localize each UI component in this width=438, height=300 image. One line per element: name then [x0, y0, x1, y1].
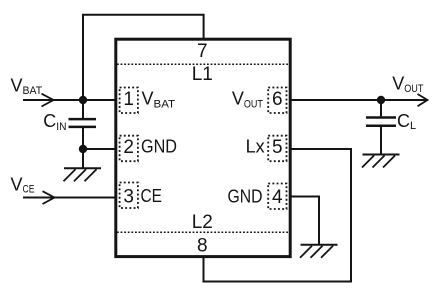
svg-text:L1: L1 [192, 64, 213, 85]
VBAT input arrow [42, 94, 54, 107]
VCE input arrow [43, 191, 55, 204]
svg-text:2: 2 [123, 137, 134, 158]
wire GND node down to ground [82, 149, 84, 168]
wire VBAT input to pin 1 [23, 99, 115, 101]
svg-text:GND: GND [228, 187, 263, 207]
wire CIN top stub [82, 100, 84, 118]
wire CL bottom to ground [380, 127, 382, 155]
wire VBAT node up and over to pin 7 [83, 15, 204, 100]
pin 3 box [120, 183, 138, 209]
svg-text:6: 6 [272, 89, 283, 110]
svg-text:7: 7 [197, 41, 208, 62]
pin 2 box [120, 136, 138, 162]
svg-text:CE: CE [141, 186, 163, 206]
ground (CIN) [64, 168, 102, 181]
svg-text:8: 8 [197, 236, 208, 257]
ground (CL) [362, 155, 400, 168]
wire CIN bottom to GND node [82, 128, 84, 149]
svg-text:5: 5 [272, 137, 283, 158]
capacitor CIN [69, 119, 97, 127]
pin 6 box [268, 88, 286, 114]
node CIN/GND junction [79, 145, 87, 153]
svg-text:Lx: Lx [246, 137, 265, 157]
inductor L1 internal boundary (dotted) [117, 63, 289, 65]
pin 5 box [268, 136, 286, 162]
wire pin 5 Lx to pin 8 [204, 149, 352, 282]
inductor L2 internal boundary (dotted) [117, 231, 289, 233]
ground (pin 4) [300, 245, 338, 258]
wire GND node to pin 2 [83, 148, 115, 150]
svg-text:1: 1 [123, 89, 134, 110]
wire pin 4 to ground [291, 197, 319, 245]
IC U1 body [116, 39, 290, 256]
node VOUT junction at CL top [377, 96, 385, 104]
pin 4 box [268, 184, 286, 210]
wire pin 6 to VOUT output [291, 99, 427, 101]
svg-text:L2: L2 [192, 212, 213, 233]
svg-text:4: 4 [272, 187, 283, 208]
wire VCE input to pin 3 [23, 197, 115, 199]
pin 1 box [120, 88, 138, 114]
wire CL top stub [380, 100, 382, 116]
node VBAT junction at CIN top [79, 96, 87, 104]
VOUT output arrow [418, 94, 428, 106]
svg-text:3: 3 [123, 186, 134, 207]
svg-text:GND: GND [141, 137, 177, 157]
capacitor CL [366, 118, 396, 126]
